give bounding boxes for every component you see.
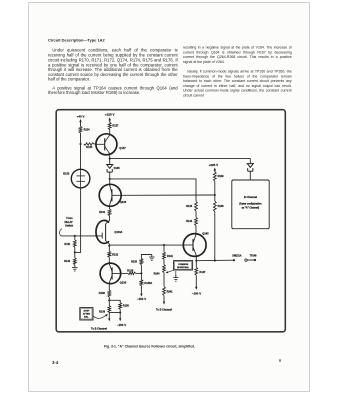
- svg-text:From: From: [66, 217, 73, 220]
- STEP ATTEN BAL box: [80, 308, 93, 320]
- node J8: [119, 309, 121, 313]
- svg-text:R133: R133: [86, 146, 93, 149]
- svg-text:R137: R137: [112, 124, 119, 127]
- node J2: [109, 178, 111, 180]
- svg-text:ATTEN: ATTEN: [83, 313, 91, 316]
- node J4: [74, 247, 76, 253]
- svg-text:R132: R132: [112, 253, 119, 256]
- resistor R147: [195, 261, 206, 276]
- potentiometer R139: [99, 300, 120, 313]
- svg-text:−150 V: −150 V: [117, 323, 126, 327]
- svg-text:R136A: R136A: [144, 282, 152, 285]
- svg-text:R139: R139: [99, 311, 106, 314]
- node J6: [140, 272, 142, 274]
- wire R137 to Q137 collector: [109, 130, 111, 134]
- node J11: [214, 260, 216, 262]
- resistor R131 (gate divider): [64, 236, 76, 247]
- wire Q137 emitter to node J2a: [109, 155, 111, 158]
- node J2a (emitter junction): [109, 158, 111, 160]
- resistor R134: [79, 126, 90, 133]
- svg-text:−150 V: −150 V: [137, 297, 146, 301]
- net -150 V (b): [117, 323, 126, 327]
- wire DELAY switch to Q134A gate: [61, 235, 102, 237]
- svg-text:Q136: Q136: [120, 281, 127, 285]
- header: Circuit Description—Type 1A2: [48, 38, 188, 44]
- svg-text:R241: R241: [167, 290, 174, 293]
- svg-text:To B Channel: To B Channel: [156, 309, 172, 312]
- node J1: [79, 143, 81, 145]
- svg-text:R143: R143: [186, 205, 193, 208]
- svg-text:R150: R150: [123, 305, 130, 308]
- svg-text:D135: D135: [114, 167, 121, 170]
- figure caption: [104, 345, 224, 351]
- net -100 V: [192, 291, 201, 295]
- svg-text:SW151A: SW151A: [232, 255, 242, 258]
- wire +40V supply feed: [80, 123, 82, 126]
- scan mark dot: [279, 359, 282, 362]
- net -150 V (a): [137, 297, 146, 301]
- test point TP148: [247, 255, 257, 262]
- resistor R144: [186, 211, 197, 226]
- transistor Q133: [99, 179, 127, 207]
- wire Q145 emitter to node J12: [195, 256, 197, 260]
- ground (wiper): [173, 271, 178, 281]
- wire R147 to -100V: [195, 275, 197, 290]
- svg-text:STEP: STEP: [84, 311, 90, 313]
- diode D135: [107, 159, 121, 173]
- page number 3-4: [52, 360, 72, 367]
- svg-text:+40 V: +40 V: [77, 114, 85, 118]
- resistor R149: [213, 172, 224, 182]
- resistor R140: [64, 252, 76, 264]
- svg-text:Q137: Q137: [119, 146, 126, 150]
- resistor R133: [84, 143, 94, 149]
- transistor Q137: [96, 133, 126, 155]
- node J3: [74, 235, 76, 237]
- COMMON MODE BAL box: [174, 261, 193, 270]
- potentiometer R140 (common mode bal): [154, 259, 166, 286]
- svg-text:+225 V: +225 V: [105, 113, 115, 117]
- svg-text:R135: R135: [131, 260, 138, 263]
- svg-text:BAL: BAL: [84, 316, 89, 319]
- pointer COMMON MODE BAL to R140 wiper: [166, 270, 175, 273]
- +40 V supply: [77, 114, 85, 123]
- svg-text:TP148: TP148: [250, 255, 257, 258]
- wire R148 to node J11: [214, 212, 216, 261]
- svg-text:(Same configuration: (Same configuration: [239, 203, 262, 206]
- wire B133 bottom to node J4: [75, 188, 81, 253]
- svg-text:To B Channel: To B Channel: [91, 328, 107, 331]
- node J10: [214, 181, 216, 196]
- transistor Q136: [100, 263, 127, 285]
- node J7: [108, 297, 110, 301]
- note To B Channel (b): [156, 309, 172, 312]
- svg-text:R140: R140: [64, 260, 71, 263]
- wire R132 to Q136 collector: [108, 257, 110, 263]
- resistor R137: [108, 122, 119, 129]
- svg-text:R141: R141: [167, 255, 174, 258]
- svg-text:COMMON: COMMON: [178, 264, 189, 266]
- svg-text:R147: R147: [199, 271, 206, 274]
- wire J5 to Q145 base: [109, 244, 184, 247]
- resistor R241: [163, 287, 174, 296]
- resistor R132: [108, 246, 119, 257]
- svg-text:Switch: Switch: [65, 225, 74, 228]
- wire J2a to B-channel diode (long horizontal): [110, 159, 251, 164]
- svg-text:Q145: Q145: [202, 231, 209, 235]
- svg-text:R138: R138: [99, 292, 106, 295]
- wire D135 to node J2: [109, 172, 111, 179]
- wire J7 to R150: [109, 300, 120, 302]
- svg-text:R134: R134: [84, 128, 91, 131]
- svg-text:−100 V: −100 V: [192, 291, 201, 295]
- svg-text:R144: R144: [186, 220, 193, 223]
- resistor R131: [99, 209, 111, 216]
- switch SW151A: [232, 255, 247, 262]
- pointer STEP ATTEN BAL to R139 wiper: [93, 314, 108, 319]
- resistor R136: [121, 269, 142, 274]
- svg-text:R131: R131: [99, 211, 106, 214]
- svg-text:DELAY: DELAY: [64, 221, 73, 224]
- svg-text:R136: R136: [127, 269, 134, 272]
- note From DELAY Switch: [60, 217, 74, 236]
- wire R241 to B channel: [163, 296, 165, 305]
- svg-text:Q133: Q133: [120, 200, 127, 204]
- wire R131 to Q134A drain: [109, 216, 111, 221]
- svg-text:+225 V: +225 V: [209, 163, 219, 167]
- resistor R150: [119, 303, 130, 310]
- B Channel box: [232, 180, 269, 229]
- ground (R135 top): [149, 255, 155, 261]
- resistor R148: [213, 195, 224, 212]
- svg-text:MODE BAL: MODE BAL: [177, 266, 189, 269]
- neon lamp B133: [63, 169, 90, 188]
- wire J2 to R143 column: [110, 179, 196, 202]
- wire R134 to node J1: [80, 133, 82, 144]
- svg-text:R149: R149: [218, 175, 225, 178]
- wire R136A to -150V: [140, 286, 142, 297]
- svg-text:Q134A: Q134A: [114, 231, 122, 234]
- wire Q133 base to divider: [121, 194, 215, 196]
- svg-text:as “A” Channel): as “A” Channel): [242, 206, 260, 209]
- wire output (emitter line): [196, 259, 234, 262]
- svg-text:R148: R148: [218, 205, 225, 208]
- wire +225V to R137: [109, 121, 111, 122]
- svg-text:R140: R140: [154, 272, 161, 275]
- wire R144 to Q145 collector: [195, 226, 197, 233]
- resistor R135: [131, 255, 152, 274]
- left text column: [48, 48, 178, 98]
- diode CR145 (to B channel): [247, 164, 253, 172]
- svg-text:B Channel: B Channel: [244, 195, 258, 199]
- +225 V supply (b): [209, 163, 219, 172]
- right text column: [183, 45, 292, 101]
- node J12: [195, 260, 197, 262]
- wire J8 to -150V: [119, 313, 121, 322]
- ground (below R140): [72, 265, 78, 271]
- +225 V supply: [105, 113, 115, 122]
- wire R133 to Q137 base: [94, 143, 96, 145]
- FET Q134A: [95, 220, 122, 245]
- wire R139 to B channel: [108, 313, 110, 322]
- note To B Channel (a): [91, 328, 107, 331]
- resistor R136A: [140, 273, 152, 285]
- resistor R141: [163, 245, 174, 259]
- node J9 (R141 top): [163, 244, 165, 246]
- wire Q133 emitter to R131: [109, 206, 111, 209]
- wire J1 to B133 top: [80, 144, 82, 169]
- transistor Q145: [183, 231, 209, 256]
- resistor R138: [99, 290, 111, 297]
- wire Q136 emitter to R138: [108, 284, 110, 290]
- node J5 (source junction): [108, 245, 110, 247]
- wire diode to B Channel box: [249, 171, 251, 180]
- svg-text:B133: B133: [63, 173, 70, 176]
- svg-text:R131: R131: [64, 243, 71, 246]
- resistor R143: [186, 201, 197, 211]
- schematic frame: [56, 110, 285, 332]
